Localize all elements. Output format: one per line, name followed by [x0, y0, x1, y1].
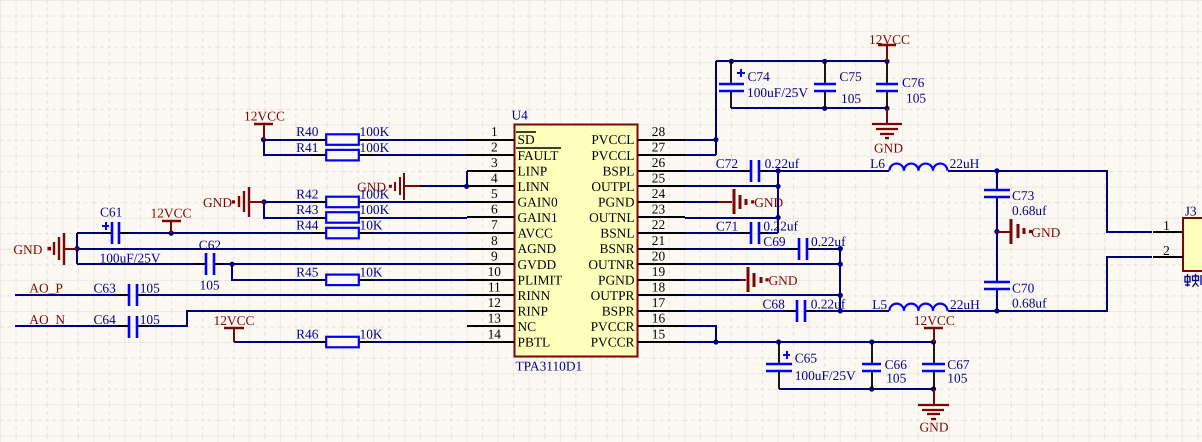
capacitor C68 — [787, 300, 815, 322]
svg-text:AGND: AGND — [518, 241, 557, 256]
connector J3 body — [1183, 218, 1202, 271]
svg-text:C69: C69 — [763, 234, 786, 249]
svg-text:1: 1 — [1163, 218, 1170, 233]
pin 17 (BSPR) — [602, 295, 685, 318]
svg-text:C76: C76 — [902, 75, 925, 90]
svg-text:22uH: 22uH — [950, 297, 980, 312]
capacitor C67 — [922, 342, 945, 389]
svg-text:R44: R44 — [296, 218, 319, 233]
power 12VCC (top rail) — [878, 45, 896, 61]
pin 27 (PVCCL) — [591, 139, 685, 162]
svg-text:GND: GND — [919, 420, 948, 435]
pin 1 (SD) — [467, 124, 536, 147]
junction node R at L5 — [838, 308, 843, 313]
svg-text:16: 16 — [652, 311, 666, 326]
svg-text:BSNL: BSNL — [600, 226, 634, 241]
pin 25 (OUTPL) — [591, 171, 685, 194]
ground (bottom group) — [918, 389, 949, 419]
wire pin 15 (PVCCR) rail — [685, 341, 934, 343]
svg-text:22uH: 22uH — [950, 156, 980, 171]
pin 1 (J3) — [1153, 218, 1183, 233]
ground (top group) — [872, 108, 902, 138]
wire up to pin 3 (LINP) — [466, 171, 468, 186]
wire PVCCL vertical riser — [715, 61, 717, 155]
svg-text:14: 14 — [488, 326, 502, 341]
pin 22 (BSNL) — [600, 217, 685, 240]
wire pin 24 (PGND) — [685, 201, 718, 203]
svg-text:13: 13 — [488, 311, 502, 326]
svg-text:100K: 100K — [360, 202, 390, 217]
junction C75 top — [822, 59, 827, 64]
svg-text:27: 27 — [652, 139, 666, 154]
wire down to R41 / pin 2 (FAULT) — [264, 140, 467, 155]
junction C66 bottom — [869, 386, 874, 391]
resistor R43 — [312, 212, 373, 223]
svg-text:0.22uf: 0.22uf — [763, 219, 798, 234]
pin 8 (AGND) — [467, 233, 557, 256]
junction C73 top node — [994, 168, 999, 173]
wire C71 to node L — [759, 232, 778, 234]
ground (pin 19 PGND) — [740, 267, 769, 292]
svg-text:GND: GND — [874, 141, 903, 156]
wire pin 28 (PVCCL) — [685, 139, 716, 141]
junction C76 top / 12VCC — [884, 59, 889, 64]
svg-text:10K: 10K — [360, 327, 383, 342]
svg-text:BSPR: BSPR — [602, 304, 635, 319]
svg-text:24: 24 — [652, 186, 666, 201]
ground (AGND far left) — [48, 233, 78, 265]
capacitor C61 (polarized) — [102, 222, 129, 244]
svg-text:C74: C74 — [748, 69, 771, 84]
op-amp U4 TPA3110D1 body — [515, 125, 638, 357]
pin 26 (BSPL) — [602, 155, 685, 178]
svg-text:OUTNL: OUTNL — [589, 210, 634, 225]
wire 12VCC to R46 / pin 14 (PBTL) — [234, 341, 467, 343]
svg-text:RINN: RINN — [518, 288, 551, 303]
svg-text:R42: R42 — [296, 187, 318, 202]
wire pin 8 (AGND) to GND — [77, 248, 467, 250]
inductor L5 — [889, 304, 947, 311]
capacitor C71 — [741, 222, 768, 244]
wire pin 22 (BSNL) to C71 — [685, 232, 751, 234]
svg-text:PLIMIT: PLIMIT — [518, 272, 563, 287]
junction OUTPR — [838, 293, 843, 298]
svg-text:100uF/25V: 100uF/25V — [747, 85, 808, 100]
wire node L vertical — [777, 171, 779, 233]
label speaker (Chinese) — [1185, 274, 1201, 287]
pin 23 (OUTNL) — [589, 202, 685, 225]
capacitor C75 — [814, 61, 836, 108]
power 12VCC (AVCC) — [162, 221, 181, 233]
svg-text:OUTPL: OUTPL — [591, 179, 634, 194]
wire C62 to pin 9 (GVDD) — [214, 263, 467, 265]
wire C64 jog to pin 12 (RINP) — [137, 311, 467, 326]
wire pin 27 (PVCCL) — [685, 154, 716, 156]
pin 11 (RINN) — [467, 280, 551, 303]
junction C75 bottom — [822, 106, 827, 111]
power 12VCC (PBTL) — [224, 328, 244, 342]
svg-text:PVCCR: PVCCR — [591, 319, 635, 334]
svg-text:15: 15 — [652, 326, 666, 341]
svg-text:22: 22 — [652, 217, 665, 232]
wire C73/C70 vertical bottom — [996, 289, 998, 311]
svg-text:BSPL: BSPL — [602, 163, 634, 178]
junction pin1 net — [261, 137, 266, 142]
svg-text:AVCC: AVCC — [518, 226, 554, 241]
svg-text:GND: GND — [357, 179, 386, 194]
svg-text:23: 23 — [652, 202, 666, 217]
svg-text:OUTNR: OUTNR — [588, 257, 634, 272]
svg-text:105: 105 — [200, 278, 220, 293]
svg-text:0.22uf: 0.22uf — [811, 296, 846, 311]
wire node R vertical — [839, 249, 841, 311]
svg-text:L6: L6 — [870, 156, 885, 171]
svg-text:R46: R46 — [296, 327, 319, 342]
svg-text:RINP: RINP — [518, 304, 549, 319]
junction node L at C72 — [776, 168, 781, 173]
svg-text:28: 28 — [652, 124, 666, 139]
pin 20 (OUTNR) — [588, 248, 685, 271]
svg-text:C61: C61 — [100, 205, 122, 220]
wire down to R45 / pin 10 (PLIMIT) — [232, 264, 467, 280]
junction node R at C69 — [838, 246, 843, 251]
wire pin 26 (BSPL) to C72 — [685, 170, 751, 172]
junction PVCC left — [713, 137, 718, 142]
svg-text:11: 11 — [488, 280, 501, 295]
svg-text:C71: C71 — [716, 219, 738, 234]
capacitor C63 — [118, 284, 148, 306]
wire C69 to node R — [807, 248, 840, 250]
junction C65 top — [776, 339, 781, 344]
pin 7 (AVCC) — [467, 217, 553, 240]
resistor R44 — [312, 228, 373, 239]
junction AGND — [75, 246, 80, 251]
capacitor C64 — [118, 316, 148, 338]
svg-text:10: 10 — [488, 264, 502, 279]
junction 12VCC/AVCC — [169, 231, 174, 236]
wire C68 to node R / L5 — [805, 310, 889, 312]
svg-text:18: 18 — [652, 280, 666, 295]
svg-text:C73: C73 — [1012, 188, 1035, 203]
wire pin4 segment — [466, 185, 468, 187]
svg-text:105: 105 — [140, 281, 160, 296]
svg-text:12VCC: 12VCC — [244, 108, 285, 123]
power 12VCC (top left) — [254, 124, 273, 140]
svg-text:OUTPR: OUTPR — [591, 288, 635, 303]
wire GND vertical (left) — [76, 233, 78, 264]
wire AVCC row left of C61 — [77, 232, 111, 234]
junction OUTPL — [776, 184, 781, 189]
svg-text:FAULT: FAULT — [518, 148, 559, 163]
svg-text:GND: GND — [1031, 225, 1060, 240]
wire pin 25 (OUTPL) — [685, 185, 778, 187]
svg-text:105: 105 — [841, 91, 861, 106]
svg-text:17: 17 — [652, 295, 666, 310]
wire AVCC row C61 to R44 / pin 7 — [120, 232, 467, 234]
pin 21 (BSNR) — [600, 233, 685, 256]
wire pin 17 (BSPR) to C68 — [685, 310, 797, 312]
svg-text:C63: C63 — [94, 281, 117, 296]
capacitor C62 — [196, 253, 224, 275]
capacitor C73 — [984, 190, 1010, 197]
wire down to R43 / pin 6 (GAIN1) — [264, 202, 467, 218]
wire GND to R42 / pin 5 (GAIN0) — [264, 201, 485, 203]
svg-text:100uF/25V: 100uF/25V — [795, 368, 856, 383]
svg-text:J3: J3 — [1185, 204, 1197, 219]
wire net AO_P to C63 — [15, 294, 128, 296]
capacitor C76 — [876, 61, 898, 108]
svg-text:0.68uf: 0.68uf — [1012, 203, 1047, 218]
junction PVCCR — [713, 339, 718, 344]
wire GVDD row left of C62 — [77, 263, 206, 265]
pin 14 (PBTL) — [467, 326, 550, 349]
svg-text:105: 105 — [886, 371, 906, 386]
wire GND to pin 4 (LINN) — [420, 185, 467, 187]
svg-text:PGND: PGND — [598, 272, 635, 287]
ground (filter) — [997, 219, 1032, 244]
svg-text:10K: 10K — [360, 218, 383, 233]
wire net AO_N to C64 — [15, 325, 128, 327]
svg-text:C64: C64 — [94, 312, 117, 327]
svg-text:R45: R45 — [296, 264, 319, 279]
wire C72 to node L — [759, 170, 778, 172]
capacitor C66 — [862, 342, 881, 389]
junction GVDD — [230, 262, 235, 267]
svg-text:PBTL: PBTL — [518, 335, 551, 350]
wire node L to L6 — [778, 170, 889, 172]
svg-text:21: 21 — [652, 233, 665, 248]
resistor R41 — [312, 150, 373, 161]
capacitor C72 — [741, 160, 768, 182]
capacitor C69 — [789, 238, 817, 260]
capacitor C74 (polarized) — [719, 61, 745, 108]
resistor R45 — [312, 275, 373, 286]
svg-text:BSNR: BSNR — [600, 241, 635, 256]
svg-text:R43: R43 — [296, 202, 319, 217]
svg-text:6: 6 — [491, 202, 498, 217]
ground (pin 24 PGND) — [718, 189, 754, 214]
svg-text:PVCCL: PVCCL — [591, 132, 634, 147]
svg-text:C72: C72 — [716, 156, 738, 171]
svg-text:C62: C62 — [199, 238, 221, 253]
svg-text:GVDD: GVDD — [518, 257, 557, 272]
svg-text:PGND: PGND — [598, 195, 635, 210]
junction C67 bottom / GND — [931, 386, 936, 391]
svg-text:GND: GND — [13, 242, 42, 257]
svg-text:10K: 10K — [360, 264, 383, 279]
svg-text:SD: SD — [518, 132, 535, 147]
ground (GAIN0/GAIN1) — [232, 187, 264, 217]
svg-text:105: 105 — [906, 91, 926, 106]
junction C74 top — [729, 59, 734, 64]
wire pin 18 (OUTPR) — [685, 294, 840, 296]
svg-text:GAIN1: GAIN1 — [518, 210, 558, 225]
pin 15 (PVCCR) — [591, 326, 685, 349]
svg-text:26: 26 — [652, 155, 666, 170]
svg-text:R40: R40 — [296, 124, 319, 139]
svg-text:8: 8 — [491, 233, 498, 248]
pin 13 (NC) — [467, 311, 536, 334]
pin 4 (LINN) — [467, 171, 550, 194]
junction C66 top — [869, 339, 874, 344]
pin 2 (J3) — [1153, 243, 1183, 258]
wire 12VCC to R40 / pin 1 (SD) — [264, 139, 485, 141]
svg-text:AO_P: AO_P — [29, 281, 62, 296]
svg-text:2: 2 — [491, 139, 498, 154]
svg-text:LINP: LINP — [518, 163, 548, 178]
wire pin 23 (OUTNL) — [685, 217, 778, 219]
wire C73/C70 vertical mid — [996, 197, 998, 282]
svg-text:25: 25 — [652, 171, 666, 186]
junction OUTNR — [838, 262, 843, 267]
svg-text:3: 3 — [491, 155, 498, 170]
svg-text:20: 20 — [652, 248, 666, 263]
svg-text:C70: C70 — [1012, 280, 1035, 295]
svg-text:L5: L5 — [872, 297, 887, 312]
wire C73/C70 vertical top — [996, 171, 998, 190]
svg-text:100K: 100K — [360, 140, 390, 155]
svg-text:TPA3110D1: TPA3110D1 — [516, 359, 583, 374]
junction OUTNL — [776, 215, 781, 220]
resistor R42 — [312, 197, 373, 208]
svg-text:12VCC: 12VCC — [214, 313, 255, 328]
svg-text:0.22uf: 0.22uf — [765, 156, 800, 171]
svg-text:PVCCL: PVCCL — [591, 148, 634, 163]
capacitor C70 — [984, 282, 1010, 289]
pin 16 (PVCCR) — [591, 311, 685, 334]
pin 2 (FAULT) — [467, 139, 561, 162]
wire L5 to J3 pin 2 — [948, 257, 1152, 311]
svg-text:100uF/25V: 100uF/25V — [100, 251, 161, 266]
wire pin 20 (OUTNR) — [685, 263, 840, 265]
svg-text:12: 12 — [488, 295, 501, 310]
svg-text:100K: 100K — [360, 124, 390, 139]
svg-text:9: 9 — [491, 248, 498, 263]
svg-text:GND: GND — [203, 195, 232, 210]
pin 24 (PGND) — [598, 186, 685, 209]
svg-text:4: 4 — [491, 171, 498, 186]
junction C76 bottom / GND — [884, 106, 889, 111]
pin 10 (PLIMIT) — [467, 264, 562, 287]
svg-text:GAIN0: GAIN0 — [518, 195, 558, 210]
wire L6 to J3 pin 1 — [948, 171, 1152, 232]
ground (LINP/LINN) — [389, 173, 420, 200]
wire pin 16 (PVCCR) — [685, 326, 716, 342]
svg-text:0.22uf: 0.22uf — [811, 234, 846, 249]
svg-text:19: 19 — [652, 264, 666, 279]
pin 3 (LINP) — [467, 155, 547, 178]
wire C63 to pin 11 (RINN) — [137, 294, 467, 296]
svg-text:U4: U4 — [512, 107, 529, 122]
svg-text:C68: C68 — [763, 296, 786, 311]
svg-text:C75: C75 — [839, 69, 862, 84]
svg-text:LINN: LINN — [518, 179, 550, 194]
svg-text:R41: R41 — [296, 140, 318, 155]
junction LINN — [464, 184, 469, 189]
svg-text:12VCC: 12VCC — [914, 313, 955, 328]
wire pin 19 (PGND) — [685, 279, 740, 281]
svg-text:1: 1 — [491, 124, 498, 139]
svg-text:5: 5 — [491, 186, 498, 201]
svg-text:PVCCR: PVCCR — [591, 335, 635, 350]
junction GAIN net — [262, 199, 267, 204]
resistor R40 — [312, 134, 373, 145]
svg-text:NC: NC — [518, 319, 537, 334]
svg-text:12VCC: 12VCC — [869, 32, 910, 47]
svg-text:GND: GND — [754, 195, 783, 210]
svg-text:0.68uf: 0.68uf — [1012, 296, 1047, 311]
wire bottom group rail — [779, 388, 934, 390]
junction C70 bottom node — [994, 308, 999, 313]
wire top group bottom rail — [731, 107, 887, 109]
wire 12VCC top rail — [716, 60, 887, 62]
pin 5 (GAIN0) — [467, 186, 558, 209]
pin 6 (GAIN1) — [467, 202, 558, 225]
power 12VCC (PVCCR) — [924, 328, 943, 342]
svg-text:C65: C65 — [795, 351, 818, 366]
svg-text:2: 2 — [1163, 243, 1170, 258]
wire pin 21 (BSNR) to C69 — [685, 248, 799, 250]
capacitor C65 (polarized) — [766, 342, 792, 389]
inductor L6 — [889, 164, 947, 171]
svg-text:7: 7 — [491, 217, 498, 232]
svg-text:12VCC: 12VCC — [151, 206, 192, 221]
svg-text:105: 105 — [947, 371, 967, 386]
pin 12 (RINP) — [467, 295, 548, 318]
pin 9 (GVDD) — [467, 248, 557, 271]
pin 28 (PVCCL) — [591, 124, 685, 147]
junction filter GND — [994, 229, 999, 234]
pin 18 (OUTPR) — [591, 280, 685, 303]
svg-text:GND: GND — [769, 273, 798, 288]
svg-text:AO_N: AO_N — [29, 312, 65, 327]
svg-text:105: 105 — [140, 312, 160, 327]
resistor R46 — [312, 337, 373, 348]
junction C67 top / 12VCC — [931, 339, 936, 344]
pin 19 (PGND) — [598, 264, 685, 287]
